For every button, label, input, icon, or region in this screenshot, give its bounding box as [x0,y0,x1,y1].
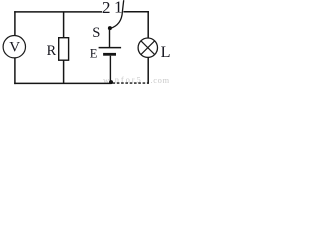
svg-text:S: S [92,25,100,41]
svg-text:1: 1 [114,0,123,17]
watermark text [103,75,170,86]
resistor R lower lead [63,60,65,83]
lamp L cross [141,41,155,55]
switch S blade [110,0,123,28]
wire top-left horizontal [14,11,102,13]
svg-text:L: L [161,43,171,61]
resistor R branch upper lead [63,12,65,38]
wire bottom dashed [113,82,149,84]
wire right vertical upper [147,11,149,38]
voltmeter V1 circle [3,36,25,58]
battery E long plate [99,47,122,49]
svg-text:2: 2 [102,0,111,17]
background [0,0,172,85]
wire top-right horizontal [123,11,148,13]
svg-text:V: V [9,40,20,56]
wire right vertical lower [147,57,149,84]
svg-text:.com: .com [151,75,170,85]
svg-text:E: E [90,47,98,61]
battery E top lead [109,30,111,48]
wire bottom solid [14,82,110,84]
wire left vertical upper [14,11,16,36]
resistor R box [59,38,69,61]
lamp L circle [138,38,157,57]
battery E bottom lead [109,56,111,82]
svg-text:R: R [47,43,57,59]
junction dot bottom [109,80,113,84]
switch pivot dot [108,26,112,30]
battery E short plate [103,53,116,56]
wire left vertical lower [14,58,16,84]
